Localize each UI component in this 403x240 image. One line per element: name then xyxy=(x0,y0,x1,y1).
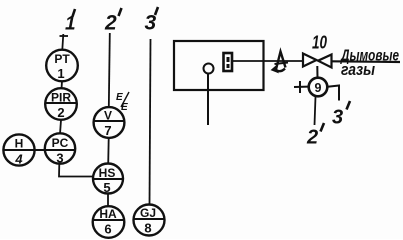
svg-text:PC: PC xyxy=(52,136,69,150)
wire lead 1' xyxy=(60,34,69,50)
svg-text:PIR: PIR xyxy=(51,91,71,105)
wire 9 right elbow xyxy=(328,86,340,101)
node 3' label xyxy=(145,7,159,35)
label E/E xyxy=(116,92,129,113)
arrow symbol A xyxy=(272,52,289,73)
node 3' label bottom xyxy=(332,101,350,129)
instrument PC 3 xyxy=(44,133,76,165)
actuator 9 xyxy=(309,78,328,97)
svg-text:GJ: GJ xyxy=(140,206,156,220)
wire burner down xyxy=(207,74,209,126)
svg-text:3: 3 xyxy=(56,151,63,166)
instrument PT 1 xyxy=(46,50,78,82)
svg-text:газы: газы xyxy=(341,60,375,79)
svg-text:2: 2 xyxy=(57,105,64,120)
valve 10 xyxy=(303,33,332,68)
wire V7-HS5 xyxy=(107,138,110,164)
svg-text:3: 3 xyxy=(145,12,157,35)
wire valve stem xyxy=(316,66,318,78)
svg-text:10: 10 xyxy=(312,33,327,53)
node 2' label xyxy=(104,8,122,35)
wire 9 down to 2' xyxy=(315,97,316,126)
instrument HA 6 xyxy=(93,206,125,238)
svg-text:5: 5 xyxy=(103,180,110,195)
svg-text:1: 1 xyxy=(65,14,76,35)
svg-text:HS: HS xyxy=(99,166,116,180)
label flue gases xyxy=(340,48,400,80)
wire lead 2' xyxy=(109,33,110,108)
wire sensor to valve xyxy=(232,60,303,62)
instrument V 7 xyxy=(94,107,125,138)
svg-text:H: H xyxy=(15,137,24,151)
plus terminal xyxy=(294,81,309,93)
wire H4-PC3 xyxy=(35,149,45,151)
svg-text:PT: PT xyxy=(54,52,70,66)
svg-text:9: 9 xyxy=(315,81,322,95)
svg-text:2: 2 xyxy=(306,127,318,149)
svg-text:3: 3 xyxy=(332,107,343,129)
svg-text:8: 8 xyxy=(144,221,151,236)
sensor element xyxy=(224,53,233,71)
instrument GJ 8 xyxy=(134,205,165,236)
svg-text:2: 2 xyxy=(104,12,117,35)
svg-text:6: 6 xyxy=(104,222,111,237)
node 1' label xyxy=(65,9,76,35)
svg-text:4: 4 xyxy=(14,152,23,167)
furnace box xyxy=(174,41,264,90)
flue gas line xyxy=(332,60,401,63)
wire PC3 to HS5 xyxy=(59,164,94,177)
burner circle xyxy=(204,64,214,74)
instrument H 4 xyxy=(3,134,35,166)
instrument PIR 2 xyxy=(45,88,77,120)
node 2' label bottom xyxy=(306,123,324,149)
wire lead 3' xyxy=(150,39,151,205)
wire PT1-PIR2 xyxy=(61,81,64,89)
instrument HS 5 xyxy=(93,164,123,196)
svg-text:1: 1 xyxy=(57,66,64,81)
svg-text:V: V xyxy=(104,109,112,123)
wire PIR2-PC3 xyxy=(60,120,61,134)
svg-text:HA: HA xyxy=(99,207,117,221)
svg-text:7: 7 xyxy=(104,123,111,138)
wire HS5-HA6 xyxy=(107,194,109,206)
